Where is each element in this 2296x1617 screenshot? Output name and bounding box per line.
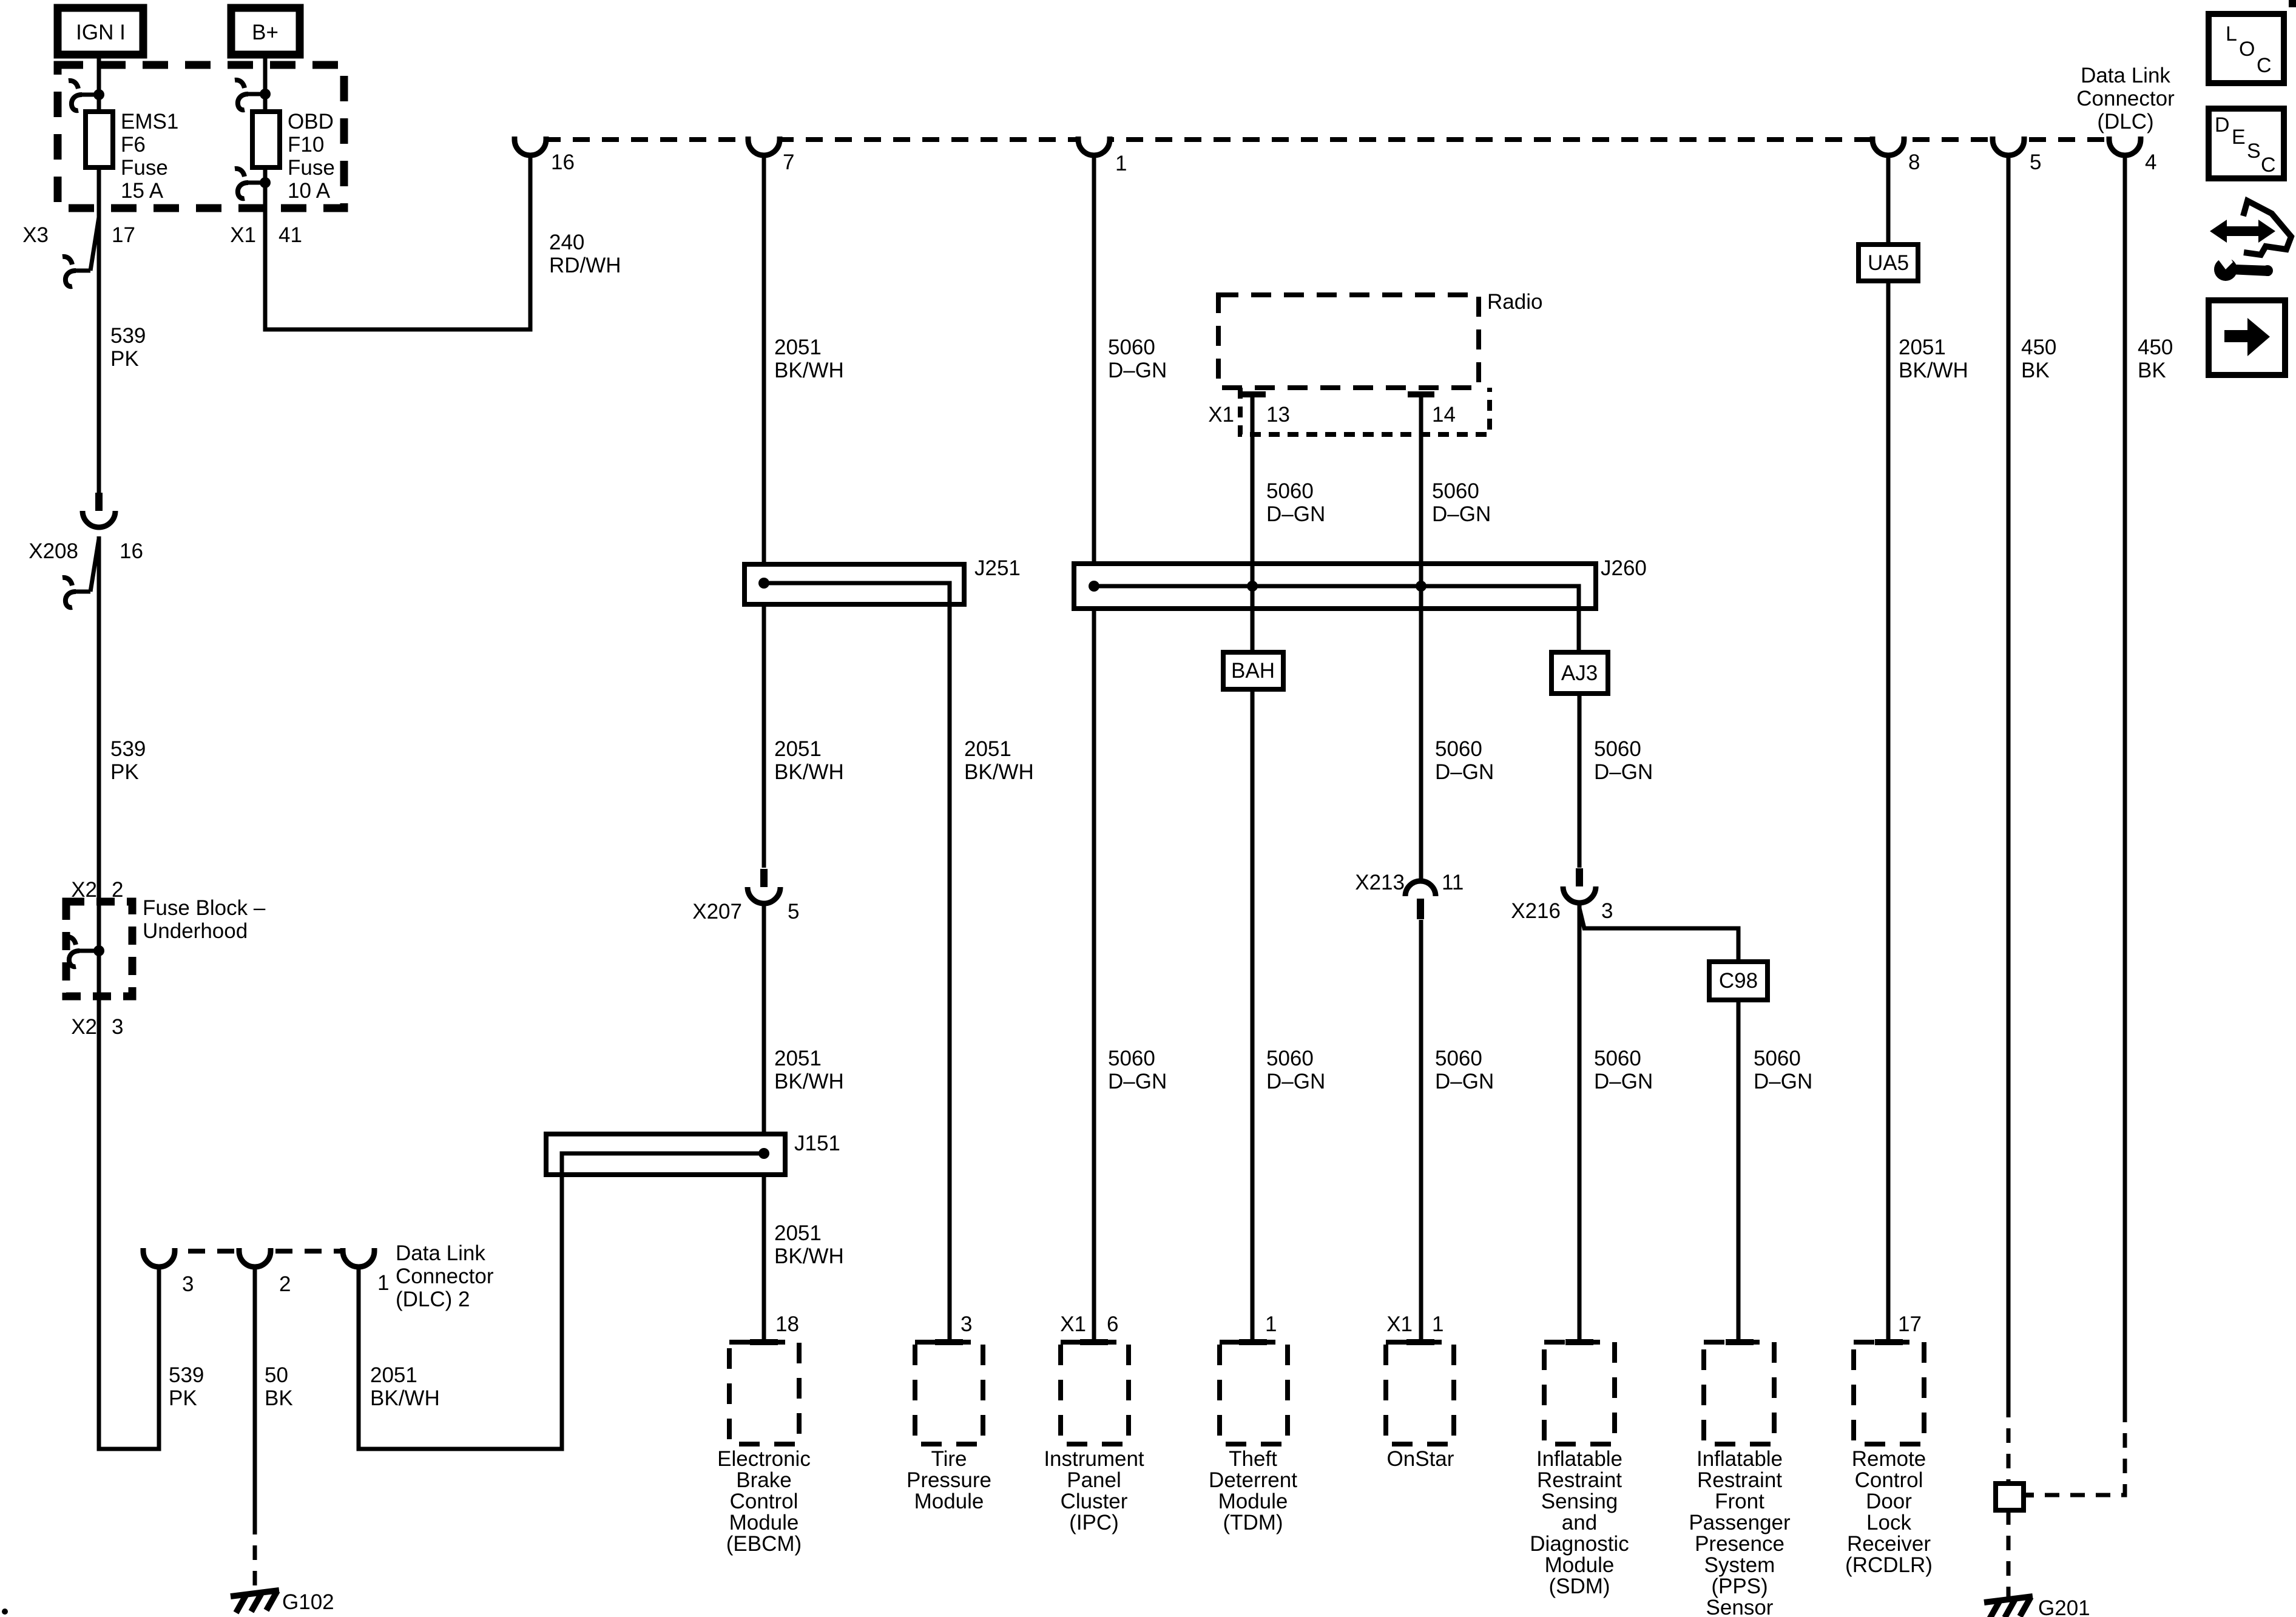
svg-text:BK/WH: BK/WH [964,760,1034,784]
module EBCM dashed box [729,1342,799,1444]
svg-text:5060: 5060 [1108,1047,1155,1070]
svg-text:Remote: Remote [1852,1447,1926,1471]
svg-text:F6: F6 [121,133,146,157]
module TPM dashed box [915,1342,983,1444]
svg-text:539: 539 [169,1363,204,1387]
module OnStar dashed box [1386,1342,1454,1444]
connector X207 pin 5 [760,869,768,888]
DLC2 dashed bus line [159,1249,359,1254]
svg-text:D–GN: D–GN [1435,1070,1494,1093]
svg-text:Panel: Panel [1067,1468,1121,1492]
connector X208 hook [90,539,99,592]
wire 450 BK DLC pin 5 solid part [2007,154,2011,1403]
svg-text:BK: BK [2138,359,2166,382]
DLC dashed bus line [515,137,2141,142]
svg-text:(DLC): (DLC) [2097,110,2153,133]
module TDM dashed box [1220,1342,1288,1444]
svg-text:Control: Control [1855,1468,1923,1492]
svg-text:1: 1 [377,1271,389,1295]
svg-text:D–GN: D–GN [1266,1070,1325,1093]
connector X3 pin 17 hook [90,217,99,271]
svg-text:11: 11 [1442,871,1464,894]
svg-text:450: 450 [2021,336,2056,359]
svg-text:6: 6 [1107,1312,1118,1336]
wire 13 below BAH to TDM [1251,689,1255,1342]
module SDM dashed box [1544,1342,1615,1444]
svg-text:5060: 5060 [1266,479,1314,503]
page artifact top-right corner [2289,0,2296,7]
svg-text:(RCDLR): (RCDLR) [1845,1553,1933,1577]
J151 internal bus and tap to DLC2 pin 1 [359,1153,764,1449]
DLC2 terminal cup pin 3 [143,1248,175,1267]
svg-text:Module: Module [729,1511,799,1534]
svg-text:5060: 5060 [1432,479,1479,503]
svg-text:X1: X1 [1208,403,1234,427]
svg-text:D–GN: D–GN [1266,502,1325,526]
connector X208 pin 16 [95,493,103,511]
svg-text:240: 240 [549,231,584,254]
svg-text:BK/WH: BK/WH [774,760,844,784]
option box UA5 [1859,245,1918,281]
svg-text:8: 8 [1908,150,1920,174]
svg-text:(IPC): (IPC) [1069,1511,1119,1534]
svg-text:X216: X216 [1511,899,1561,923]
svg-text:Data Link: Data Link [396,1241,485,1265]
terminal hook IGN feed [79,93,99,97]
svg-text:16: 16 [120,539,143,563]
svg-text:D–GN: D–GN [1108,1070,1167,1093]
svg-text:Module: Module [1545,1553,1615,1577]
svg-text:Underhood: Underhood [143,919,248,943]
svg-text:Fuse Block –: Fuse Block – [143,896,266,920]
svg-text:OnStar: OnStar [1387,1447,1454,1471]
svg-text:3: 3 [182,1272,194,1296]
svg-text:D–GN: D–GN [1435,760,1494,784]
wire 450 BK DLC pin 4 solid part [2123,154,2127,1408]
svg-text:X2: X2 [71,1015,97,1039]
svg-text:5060: 5060 [1594,1047,1641,1070]
svg-text:PK: PK [110,347,139,371]
svg-text:2051: 2051 [370,1363,417,1387]
legend forward arrow box [2209,300,2285,375]
svg-text:D–GN: D–GN [1432,502,1491,526]
wire 8 2051 BK/WH DLC pin 8 to RCDLR [1886,154,1891,1342]
svg-text:5060: 5060 [1435,1047,1482,1070]
J251 internal bus and tap to Tire Pressure Module [761,583,950,1342]
svg-text:5060: 5060 [1594,737,1641,761]
svg-text:Fuse: Fuse [288,156,335,180]
svg-text:50: 50 [265,1363,288,1387]
svg-text:Tire: Tire [931,1447,967,1471]
svg-text:Connector: Connector [2076,87,2175,110]
svg-text:C: C [2261,154,2276,177]
svg-text:and: and [1562,1511,1597,1534]
wire 539 PK below X208 to DLC2 pin 3 [99,536,159,1449]
power feed B+ box [231,8,300,55]
svg-text:UA5: UA5 [1868,251,1909,275]
ground G102 [231,1590,279,1596]
svg-text:D–GN: D–GN [1108,359,1167,382]
J151 junction dot [758,1148,769,1159]
svg-text:14: 14 [1432,403,1456,427]
svg-text:Data Link: Data Link [2081,64,2170,87]
J260 junction dot wire 13 [1247,581,1258,592]
svg-text:J151: J151 [794,1132,840,1155]
wire 539 PK from IGN I fuse (left rail) [97,55,101,493]
wire 240 RD/WH from OBD fuse to DLC pin 16 [265,55,530,329]
svg-text:C: C [2257,54,2272,77]
svg-text:Front: Front [1715,1490,1764,1513]
terminal hook below OBD fuse [246,181,265,185]
legend DESC box [2209,109,2284,178]
DLC2 terminal cup pin 2 [239,1248,271,1267]
svg-text:(DLC) 2: (DLC) 2 [396,1288,470,1311]
svg-text:2051: 2051 [1899,336,1946,359]
wire C98 to PPS sensor [1737,1000,1741,1342]
wire 5060 D-GN pin 1 to J260 to IPC [1092,154,1096,1342]
svg-text:(SDM): (SDM) [1548,1575,1610,1598]
svg-text:Connector: Connector [396,1264,494,1288]
svg-text:(PPS): (PPS) [1711,1575,1768,1598]
svg-text:1: 1 [1265,1312,1277,1336]
svg-text:D–GN: D–GN [1594,760,1653,784]
svg-text:Lock: Lock [1866,1511,1911,1534]
DLC terminal cup pin 4 [2109,137,2141,155]
svg-text:BK/WH: BK/WH [370,1386,440,1410]
svg-text:Brake: Brake [736,1468,791,1492]
svg-text:5: 5 [788,900,799,923]
svg-text:Receiver: Receiver [1847,1532,1931,1556]
svg-text:C98: C98 [1719,969,1758,993]
DLC terminal cup pin 5 [1993,137,2024,155]
option box BAH [1223,652,1283,689]
svg-text:Pressure: Pressure [907,1468,991,1492]
page artifact bottom-left dot [2,1609,8,1615]
splice pack J151 box [546,1134,785,1175]
svg-text:X3: X3 [22,223,49,247]
svg-text:AJ3: AJ3 [1561,661,1598,685]
svg-text:Fuse: Fuse [121,156,168,180]
svg-text:Module: Module [1218,1490,1288,1513]
svg-text:X208: X208 [29,539,78,563]
svg-text:1: 1 [1115,152,1127,175]
svg-text:X1: X1 [1060,1312,1086,1336]
svg-text:2051: 2051 [774,737,822,761]
fuse OBD F10 10A [252,112,280,167]
wire X216 to SDM [1578,904,1582,1342]
svg-text:BK/WH: BK/WH [774,359,844,382]
svg-text:5060: 5060 [1266,1047,1314,1070]
DLC terminal cup pin 1 [1078,137,1110,155]
svg-text:J260: J260 [1601,556,1647,580]
svg-text:3: 3 [961,1312,972,1336]
svg-text:B+: B+ [252,21,279,44]
wire 50 BK dashed to G102 [253,1520,257,1595]
wire 5060 D-GN radio pin 13 [1239,391,1266,397]
wire 5060 D-GN radio pin 14 [1408,391,1434,397]
svg-text:X207: X207 [692,900,742,923]
svg-text:BK/WH: BK/WH [1899,359,1968,382]
svg-text:BK/WH: BK/WH [774,1070,844,1093]
option box C98 [1709,962,1768,1000]
DLC terminal cup pin 7 [748,137,780,155]
DLC terminal cup pin 16 [515,137,546,155]
svg-text:BK: BK [265,1386,293,1410]
svg-text:BK: BK [2021,359,2050,382]
wire 450 BK pin 4 dashed elbow to junction [2027,1408,2125,1495]
svg-text:2051: 2051 [774,1047,822,1070]
svg-text:X213: X213 [1355,871,1405,894]
svg-text:F10: F10 [288,133,324,157]
option box AJ3 [1551,652,1608,694]
svg-text:Cluster: Cluster [1061,1490,1128,1513]
svg-text:D–GN: D–GN [1754,1070,1812,1093]
svg-text:18: 18 [775,1312,799,1336]
svg-text:450: 450 [2138,336,2173,359]
splice pack J251 box [745,564,964,604]
wire 450 BK below junction to G201 [2007,1510,2011,1599]
svg-text:16: 16 [551,150,575,174]
Radio dashed box [1218,295,1479,388]
legend LOC box [2209,14,2284,83]
svg-text:10 A: 10 A [288,179,331,203]
terminal hook B+ feed [246,92,265,96]
svg-text:Passenger: Passenger [1689,1511,1791,1534]
power feed IGN I box [58,8,143,55]
legend double arrow [2210,220,2275,243]
svg-text:G201: G201 [2038,1596,2090,1617]
svg-text:O: O [2239,38,2255,61]
svg-text:PK: PK [110,760,139,784]
ground G201 [1984,1596,2033,1602]
terminal hook in underhood block [77,949,99,953]
fuse block dashed outline [58,65,344,208]
svg-text:IGN I: IGN I [76,21,126,44]
svg-text:Presence: Presence [1695,1532,1784,1556]
svg-text:BK/WH: BK/WH [774,1244,844,1268]
svg-text:41: 41 [279,223,302,247]
wire 2051 BK/WH X207 to J151 [762,905,766,1342]
svg-text:Restraint: Restraint [1697,1468,1782,1492]
svg-text:2051: 2051 [964,737,1011,761]
svg-text:7: 7 [783,150,794,174]
svg-text:17: 17 [112,223,135,247]
splice pack J260 box [1074,564,1596,609]
J251 junction dot [758,578,769,589]
Fuse Block Underhood dashed box [66,902,132,996]
svg-text:3: 3 [112,1015,123,1039]
svg-text:15 A: 15 A [121,179,164,203]
svg-text:L: L [2226,22,2237,46]
svg-text:539: 539 [110,737,146,761]
svg-text:5060: 5060 [1754,1047,1801,1070]
wire 2051 BK/WH pin 7 to J251 and on to X207 [762,154,766,868]
svg-text:2: 2 [279,1272,291,1296]
wire 450 BK pin 5 dashed to junction [2007,1403,2011,1484]
svg-text:(TDM): (TDM) [1223,1511,1283,1534]
svg-text:OBD: OBD [288,110,334,133]
wire AJ3 to X216 [1578,694,1582,868]
svg-text:Diagnostic: Diagnostic [1530,1532,1629,1556]
wire 50 BK DLC2 pin 2 [253,1266,257,1520]
svg-text:Sensing: Sensing [1541,1490,1618,1513]
DLC terminal cup pin 8 [1872,137,1904,155]
svg-text:539: 539 [110,324,146,348]
svg-text:Inflatable: Inflatable [1536,1447,1622,1471]
fuse EMS1 F6 15A [86,112,113,167]
svg-text:Inflatable: Inflatable [1697,1447,1783,1471]
svg-text:Door: Door [1866,1490,1912,1513]
svg-text:Instrument: Instrument [1044,1447,1144,1471]
svg-text:EMS1: EMS1 [121,110,178,133]
svg-text:Module: Module [914,1490,984,1513]
legend wrench [2214,258,2237,281]
svg-text:Deterrent: Deterrent [1209,1468,1297,1492]
svg-text:Theft: Theft [1229,1447,1277,1471]
svg-text:PK: PK [169,1386,197,1410]
svg-text:5060: 5060 [1108,336,1155,359]
svg-text:System: System [1704,1553,1775,1577]
svg-text:2051: 2051 [774,1221,822,1245]
J260 junction dot wire 1 [1089,581,1099,592]
svg-text:Electronic: Electronic [717,1447,811,1471]
svg-text:Restraint: Restraint [1537,1468,1622,1492]
svg-text:4: 4 [2145,150,2156,174]
svg-text:BAH: BAH [1231,659,1275,683]
svg-text:3: 3 [1601,899,1613,923]
svg-text:13: 13 [1266,403,1290,427]
J260 junction dot wire 14 [1416,581,1427,592]
svg-text:S: S [2247,140,2261,163]
module RCDLR dashed box [1854,1342,1924,1444]
svg-text:Radio: Radio [1487,290,1542,314]
junction square near G201 [1996,1484,2024,1510]
svg-text:RD/WH: RD/WH [549,254,621,277]
legend mirror outline [2243,201,2291,255]
Radio connector strip dashed [1240,388,1490,434]
svg-text:J251: J251 [974,556,1021,580]
J260 internal bus and tap to AJ3 [1094,586,1579,652]
junction square stub [2024,1493,2034,1497]
svg-text:5: 5 [2030,150,2041,174]
svg-text:2051: 2051 [774,336,822,359]
svg-text:17: 17 [1898,1312,1922,1336]
module IPC dashed box [1061,1342,1129,1444]
svg-text:1: 1 [1432,1312,1443,1336]
wire branch X216 to C98 [1579,908,1738,962]
svg-text:D–GN: D–GN [1594,1070,1653,1093]
svg-text:(EBCM): (EBCM) [726,1532,802,1556]
svg-text:G102: G102 [282,1590,334,1614]
svg-text:X1: X1 [1386,1312,1413,1336]
svg-text:Sensor: Sensor [1706,1596,1774,1617]
connector X216 pin 3 [1576,868,1583,887]
DLC2 terminal cup pin 1 [343,1248,374,1267]
svg-text:E: E [2232,126,2246,149]
module PPS dashed box [1704,1342,1774,1444]
wire 14 below X213 to OnStar [1419,920,1423,1342]
svg-text:Control: Control [730,1490,799,1513]
connector X213 pin 11 [1405,881,1436,896]
svg-text:D: D [2215,113,2230,137]
svg-text:X1: X1 [230,223,256,247]
svg-text:5060: 5060 [1435,737,1482,761]
